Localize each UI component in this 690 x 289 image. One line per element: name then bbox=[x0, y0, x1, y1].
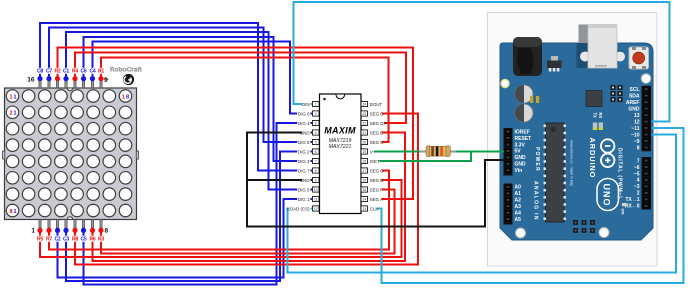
Arduino mounting hole bottom-left bbox=[516, 228, 526, 238]
svg-text:DIG 4: DIG 4 bbox=[298, 121, 310, 126]
svg-text:7: 7 bbox=[315, 160, 317, 164]
U1 pin 23 SEG D bbox=[361, 111, 383, 116]
Arduino power pin labels bbox=[515, 129, 532, 174]
svg-text:UNO: UNO bbox=[602, 184, 612, 207]
svg-text:TX→1: TX→1 bbox=[625, 197, 639, 203]
svg-text:DIG 1: DIG 1 bbox=[298, 197, 310, 202]
svg-text:1: 1 bbox=[14, 111, 17, 117]
Arduino reset button SW1 bbox=[629, 47, 649, 69]
U1 pin 15 SEG F bbox=[361, 187, 383, 192]
Arduino ON LED bbox=[621, 203, 627, 215]
wire net R1: matrix pin9 to U1 SEG C (pin 20) bbox=[101, 58, 389, 143]
svg-text:16: 16 bbox=[27, 77, 35, 84]
Arduino electrolytic capacitor C2 bbox=[515, 104, 533, 122]
wire net R4: matrix pin12 to U1 SEG DP (pin 22) bbox=[75, 53, 406, 124]
svg-text:C7: C7 bbox=[46, 69, 52, 75]
svg-text:3: 3 bbox=[315, 122, 317, 126]
wire net R2: matrix pin14 to U1 SEG A (pin 14) bbox=[58, 48, 414, 200]
svg-text:12: 12 bbox=[314, 207, 318, 211]
svg-text:R4: R4 bbox=[72, 69, 78, 75]
svg-text:ARDUINO: ARDUINO bbox=[588, 138, 597, 179]
svg-text:A5: A5 bbox=[515, 217, 522, 223]
svg-text:A4: A4 bbox=[515, 211, 522, 217]
wire net GND branch to U1 pin9 bbox=[247, 179, 312, 181]
matrix pin 16 (C8) top post bbox=[37, 76, 42, 88]
U1 pin 12 LOAD (CS) bbox=[287, 206, 319, 211]
matrix pin 8 (R3) bottom post bbox=[98, 220, 103, 233]
svg-text:RX←0: RX←0 bbox=[625, 204, 640, 210]
matrix pin 4 (C3) bottom post bbox=[63, 220, 68, 233]
wire net R8: matrix pin5 to U1 SEG D (pin 23) bbox=[75, 114, 418, 265]
svg-text:POWER: POWER bbox=[534, 147, 540, 172]
U1 pin 17 SEG G bbox=[361, 168, 384, 173]
svg-text:23: 23 bbox=[362, 112, 366, 116]
svg-text:SEG D: SEG D bbox=[370, 111, 384, 116]
svg-text:C4: C4 bbox=[89, 69, 95, 75]
svg-text:~10: ~10 bbox=[631, 132, 640, 138]
svg-text:MAX7221: MAX7221 bbox=[329, 144, 352, 150]
svg-text:A2: A2 bbox=[515, 198, 522, 204]
matrix pin 5 (R8) bottom post bbox=[72, 220, 77, 233]
svg-text:DIG 7: DIG 7 bbox=[298, 168, 310, 173]
svg-text:6: 6 bbox=[315, 150, 317, 154]
Arduino ICSP header (USB chip) bbox=[610, 85, 622, 102]
matrix pin 12 (R4) top post bbox=[72, 76, 77, 88]
wire net C7: matrix pin15 to U1 DIG6 (pin 5) bbox=[49, 28, 312, 143]
svg-text:12: 12 bbox=[634, 119, 640, 125]
svg-text:21: 21 bbox=[362, 131, 366, 135]
svg-text:2: 2 bbox=[10, 111, 13, 117]
Arduino UNO module A1 : white mounting panel bbox=[488, 13, 658, 267]
Arduino mounting hole top-right bbox=[641, 74, 651, 84]
Arduino USB interface chip U3 bbox=[586, 91, 602, 107]
svg-text:8: 8 bbox=[315, 169, 317, 173]
svg-text:3.3V: 3.3V bbox=[515, 142, 526, 148]
svg-text:TX: TX bbox=[592, 113, 597, 119]
svg-text:C2: C2 bbox=[54, 237, 60, 243]
Arduino infinity logo bbox=[601, 139, 614, 167]
svg-text:R5: R5 bbox=[37, 237, 43, 243]
svg-text:~6: ~6 bbox=[634, 165, 640, 171]
svg-text:www.arduino.cc - made in italy: www.arduino.cc - made in italy bbox=[570, 140, 574, 186]
Arduino POWER header strip bbox=[504, 128, 513, 176]
svg-text:DIG 2: DIG 2 bbox=[298, 149, 310, 154]
Arduino DIGITAL header strip upper bbox=[642, 86, 652, 152]
svg-text:2: 2 bbox=[637, 191, 640, 197]
U1 pin 5 DIG 6 bbox=[297, 139, 319, 144]
wire net ISET: U1 pin18 to +5V junction bbox=[369, 152, 472, 162]
wire net C5: matrix pin6 to U1 DIG4 (pin 3) bbox=[84, 123, 313, 285]
svg-text:8: 8 bbox=[126, 94, 129, 100]
svg-text:SDA: SDA bbox=[629, 94, 640, 100]
U1 pin 24 DOUT bbox=[361, 101, 383, 106]
svg-text:GND: GND bbox=[300, 178, 310, 183]
wire net +5V: Arduino 5V to U1 V+ (pin 19) bbox=[369, 151, 505, 153]
wire net C1: matrix pin13 to U1 DIG5 (pin 10) bbox=[66, 32, 312, 190]
Arduino voltage regulator bbox=[547, 56, 562, 72]
svg-text:R8: R8 bbox=[72, 237, 78, 243]
svg-text:A0: A0 bbox=[515, 185, 522, 191]
svg-text:~9: ~9 bbox=[634, 139, 640, 145]
matrix pin 2 (R7) bottom post bbox=[46, 220, 51, 233]
svg-text:SEG C: SEG C bbox=[370, 140, 384, 145]
wire net R7: matrix pin2 to U1 SEG G (pin 17) bbox=[49, 171, 389, 250]
svg-text:AREF: AREF bbox=[626, 100, 640, 106]
svg-text:A3: A3 bbox=[515, 204, 522, 210]
Arduino ANALOG IN header strip bbox=[504, 184, 513, 225]
svg-text:C5: C5 bbox=[80, 237, 86, 243]
U1 pin 7 DIG 3 bbox=[297, 158, 319, 163]
U1 pin 18 ISET bbox=[361, 158, 380, 163]
U1 pin 3 DIG 4 bbox=[297, 120, 319, 125]
svg-text:5V: 5V bbox=[515, 149, 522, 155]
svg-text:A1: A1 bbox=[515, 191, 522, 197]
svg-text:4: 4 bbox=[637, 178, 640, 184]
node label LED(2,1) bbox=[10, 111, 17, 117]
node label LED(1,1) bbox=[10, 94, 17, 100]
svg-text:7: 7 bbox=[637, 158, 640, 164]
wire net C4: matrix pin10 to U1 DIG0 (pin 2) bbox=[93, 42, 313, 114]
svg-text:Vin: Vin bbox=[515, 168, 523, 174]
svg-text:ON: ON bbox=[621, 209, 626, 215]
svg-text:1: 1 bbox=[122, 94, 125, 100]
U1 pin 20 SEG C bbox=[361, 139, 383, 144]
LED matrix DD1 8x8 body bbox=[3, 88, 139, 220]
Arduino TX RX LEDs bbox=[592, 113, 603, 131]
Arduino UNO label bbox=[597, 179, 619, 211]
matrix pin 1 (R5) bottom post bbox=[37, 220, 42, 233]
svg-text:20: 20 bbox=[362, 141, 366, 145]
svg-text:IOREF: IOREF bbox=[515, 129, 530, 135]
Arduino analog pin labels bbox=[515, 185, 522, 223]
svg-text:9: 9 bbox=[104, 77, 108, 84]
svg-text:~11: ~11 bbox=[631, 126, 639, 132]
svg-text:RESET: RESET bbox=[515, 136, 532, 142]
Arduino power jack J1 bbox=[513, 37, 542, 76]
svg-text:8: 8 bbox=[10, 209, 13, 215]
U1 pin 1 DIN bbox=[302, 101, 319, 106]
wire net R6: matrix pin7 to U1 SEG E (pin 21) bbox=[93, 133, 406, 262]
svg-text:RX: RX bbox=[598, 113, 603, 119]
svg-text:13: 13 bbox=[634, 113, 640, 119]
svg-text:SEG B: SEG B bbox=[370, 178, 383, 183]
svg-text:C3: C3 bbox=[63, 237, 69, 243]
svg-text:C6: C6 bbox=[80, 69, 86, 75]
svg-text:DIG 0: DIG 0 bbox=[298, 111, 310, 116]
svg-text:8: 8 bbox=[637, 145, 640, 151]
svg-text:~3: ~3 bbox=[634, 184, 640, 190]
matrix pin 10 (C4) top post bbox=[90, 76, 95, 88]
svg-text:R6: R6 bbox=[89, 237, 95, 243]
U1 pin 10 DIG 5 bbox=[297, 187, 319, 192]
svg-text:4: 4 bbox=[315, 131, 317, 135]
svg-text:R1: R1 bbox=[98, 69, 104, 75]
svg-text:C8: C8 bbox=[37, 69, 43, 75]
svg-text:2: 2 bbox=[315, 112, 317, 116]
Arduino MCU U2 ATmega328 DIP bbox=[544, 123, 567, 222]
svg-text:SEG E: SEG E bbox=[370, 130, 383, 135]
node label LED(8,1) bbox=[10, 209, 17, 215]
Arduino digital pin labels lower bbox=[625, 158, 640, 209]
svg-text:R7: R7 bbox=[46, 237, 52, 243]
svg-text:DIG 6: DIG 6 bbox=[298, 140, 310, 145]
U1 pin 22 SEG DP bbox=[361, 120, 386, 125]
svg-text:11: 11 bbox=[314, 198, 318, 202]
svg-text:DIGITAL (PWM~): DIGITAL (PWM~) bbox=[617, 148, 623, 199]
matrix pin 9 (R1) top post bbox=[98, 76, 103, 88]
svg-text:24: 24 bbox=[362, 103, 366, 107]
Arduino DIGITAL header strip lower bbox=[642, 157, 652, 210]
wire net CLK: U1 pin13 to Arduino pin 11 bbox=[369, 128, 684, 283]
svg-text:1: 1 bbox=[31, 228, 35, 235]
wire net R5: matrix pin1 to U1 SEG B (pin 16) bbox=[40, 180, 402, 257]
svg-text:CLK: CLK bbox=[370, 206, 379, 211]
matrix pin 6 (C5) bottom post bbox=[81, 220, 86, 233]
svg-text:DIN: DIN bbox=[302, 102, 310, 107]
svg-text:SEG F: SEG F bbox=[370, 187, 383, 192]
svg-text:ISET: ISET bbox=[370, 159, 380, 164]
svg-text:SEG G: SEG G bbox=[370, 168, 384, 173]
svg-text:18: 18 bbox=[362, 160, 366, 164]
node label LED(1,8) bbox=[122, 94, 129, 100]
svg-text:10: 10 bbox=[314, 188, 318, 192]
wire net LOAD/CS: U1 pin12 to Arduino pin 10 bbox=[288, 135, 677, 273]
matrix bottom pin name labels R5 R7 C2 C3 R8 C5 R6 R3 bbox=[35, 236, 107, 242]
svg-text:R3: R3 bbox=[98, 237, 104, 243]
svg-text:9: 9 bbox=[315, 179, 317, 183]
svg-text:1: 1 bbox=[10, 94, 13, 100]
wire net C3: matrix pin4 to U1 DIG2 (pin 6) bbox=[66, 152, 312, 282]
Arduino ICSP header main bbox=[573, 220, 595, 233]
U1 pin 13 CLK bbox=[361, 206, 378, 211]
matrix pin 7 (R6) bottom post bbox=[90, 220, 95, 233]
svg-text:DOUT: DOUT bbox=[370, 102, 383, 107]
svg-text:GND: GND bbox=[515, 155, 527, 161]
svg-text:LOAD (CS): LOAD (CS) bbox=[287, 206, 310, 211]
svg-text:GND: GND bbox=[300, 130, 310, 135]
svg-text:22: 22 bbox=[362, 122, 366, 126]
svg-text:17: 17 bbox=[362, 169, 366, 173]
matrix pin 3 (C2) bottom post bbox=[55, 220, 60, 233]
wire net C6: matrix pin11 to U1 DIG3 (pin 7) bbox=[84, 37, 313, 161]
wire net DIN: U1 pin1 to Arduino pin 12 bbox=[294, 2, 670, 122]
svg-text:1: 1 bbox=[14, 94, 17, 100]
Arduino USB connector bbox=[577, 25, 626, 69]
svg-text:C1: C1 bbox=[63, 69, 69, 75]
U1 pin 8 DIG 7 bbox=[297, 168, 319, 173]
Arduino mounting hole top-left bbox=[501, 80, 509, 88]
U1 pin 9 GND bbox=[300, 177, 319, 182]
svg-text:19: 19 bbox=[362, 150, 366, 154]
wire net C8: matrix pin16 to U1 DIG7 (pin 8) bbox=[40, 23, 312, 171]
svg-text:GND: GND bbox=[515, 162, 527, 168]
Arduino UNO PCB bbox=[500, 43, 653, 240]
wire net C2: matrix pin3 to U1 DIG1 (pin 11) bbox=[58, 199, 313, 278]
svg-text:15: 15 bbox=[362, 188, 366, 192]
svg-text:RoboCraft: RoboCraft bbox=[110, 67, 143, 74]
svg-text:16: 16 bbox=[362, 179, 366, 183]
svg-text:SCL: SCL bbox=[630, 87, 640, 93]
svg-text:SEG A: SEG A bbox=[370, 197, 383, 202]
svg-text:1: 1 bbox=[315, 103, 317, 107]
U1 pin 21 SEG E bbox=[361, 130, 383, 135]
Arduino electrolytic capacitor C1 bbox=[515, 85, 533, 103]
wire net GND: U1 pin4 to Arduino GND bbox=[247, 133, 504, 227]
svg-text:MAXIM: MAXIM bbox=[324, 126, 356, 136]
Arduino SMD resistor pads bbox=[530, 96, 539, 103]
op-amp driver IC U1 MAX7219 body bbox=[320, 94, 362, 214]
U1 pin 16 SEG B bbox=[361, 177, 383, 182]
U1 pin 14 SEG A bbox=[361, 196, 383, 201]
svg-text:DIG 3: DIG 3 bbox=[298, 159, 310, 164]
Arduino digital pin labels upper bbox=[626, 87, 640, 151]
svg-text:R2: R2 bbox=[54, 69, 60, 75]
svg-text:GND: GND bbox=[628, 106, 640, 112]
svg-text:V+: V+ bbox=[370, 149, 376, 154]
svg-text:8: 8 bbox=[105, 228, 109, 235]
U1 pin 11 DIG 1 bbox=[297, 196, 319, 201]
svg-text:SEG DP: SEG DP bbox=[370, 121, 387, 126]
svg-text:DIG 5: DIG 5 bbox=[298, 187, 310, 192]
matrix pin 13 (C1) top post bbox=[63, 76, 68, 88]
svg-text:5: 5 bbox=[315, 141, 317, 145]
U1 pin 19 V+ bbox=[361, 149, 376, 154]
svg-text:1: 1 bbox=[14, 209, 17, 215]
matrix pin 15 (C7) top post bbox=[46, 76, 51, 88]
RoboCraft logo bbox=[105, 67, 143, 86]
svg-text:13: 13 bbox=[362, 207, 366, 211]
svg-text:14: 14 bbox=[362, 198, 366, 202]
U1 pin 4 GND bbox=[300, 130, 319, 135]
matrix pin 11 (C6) top post bbox=[81, 76, 86, 88]
resistor R1 on +5V line bbox=[420, 146, 457, 157]
wire net R3: matrix pin8 to U1 SEG F (pin 15) bbox=[101, 190, 395, 254]
Arduino mounting hole bottom-right bbox=[599, 228, 609, 238]
svg-text:~5: ~5 bbox=[634, 171, 640, 177]
U1 pin 2 DIG 0 bbox=[297, 111, 319, 116]
svg-text:ANALOG IN: ANALOG IN bbox=[533, 181, 539, 221]
U1 pin 6 DIG 2 bbox=[297, 149, 319, 154]
matrix top pin name labels C8 C7 R2 C1 R4 C6 C4 R1 bbox=[35, 68, 107, 74]
matrix pin 14 (R2) top post bbox=[55, 76, 60, 88]
